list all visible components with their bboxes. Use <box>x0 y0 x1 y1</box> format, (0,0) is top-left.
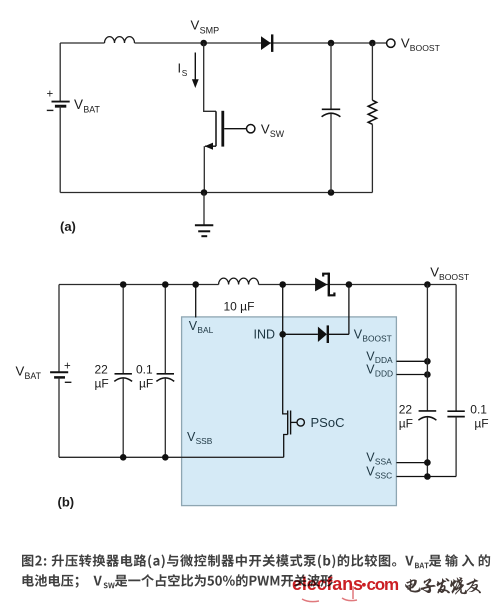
node D2 cathode junction <box>346 281 353 288</box>
label VSW <box>261 121 285 139</box>
pin line VDDA <box>396 360 427 362</box>
svg-text:V: V <box>16 364 25 379</box>
wire top rail (b) right segment <box>259 284 457 286</box>
transistor Q1 channel <box>215 111 217 146</box>
svg-text:V: V <box>191 18 200 33</box>
node VSSC junction <box>424 473 431 480</box>
wire bottom rail (a) <box>60 192 372 194</box>
wire battery bottom lead (a) <box>59 106 61 193</box>
capacitor C2 22uF (b) <box>114 285 132 458</box>
label VBOOST (b top) <box>430 265 470 283</box>
svg-text:PSoC: PSoC <box>311 415 345 430</box>
transistor Q2 gate bar <box>290 411 292 435</box>
transistor Q1 gate bar <box>221 111 224 147</box>
transistor Q2 gate lead <box>291 421 297 423</box>
svg-text:SMP: SMP <box>200 26 220 36</box>
transistor Q2 PSoC drain <box>283 334 288 414</box>
svg-text:0.1: 0.1 <box>470 402 487 416</box>
node VBAL junction <box>192 281 199 288</box>
svg-text:S: S <box>182 68 188 78</box>
svg-text:SSB: SSB <box>196 436 213 446</box>
wire bottom rail (b) <box>59 456 284 458</box>
transistor Q2 channel <box>287 411 289 435</box>
svg-text:µF: µF <box>95 376 109 390</box>
diode D3 (b inner) <box>318 325 349 343</box>
svg-text:V: V <box>401 35 410 50</box>
node C2 top <box>120 281 127 288</box>
node cap C1 top junction <box>328 40 335 47</box>
label 0.1uF (C5) <box>470 402 488 430</box>
watermark elecfans <box>292 574 399 594</box>
terminal circle PSoC gate <box>297 419 304 426</box>
wire IND to D3 <box>283 333 318 335</box>
node resistor R1 top junction <box>369 40 376 47</box>
node IND pin junction <box>279 331 286 338</box>
svg-text:SSA: SSA <box>375 456 392 466</box>
svg-text:BAT: BAT <box>83 104 100 114</box>
resistor R1 (a) <box>368 43 376 193</box>
svg-text:BOOST: BOOST <box>439 272 470 282</box>
wire VBOOST stub (a) <box>376 42 387 44</box>
transistor Q2 source wire <box>284 435 288 458</box>
label VBOOST pin (box) <box>354 328 392 344</box>
label VDDA pin <box>366 349 393 365</box>
svg-text:(b): (b) <box>58 495 75 510</box>
pin line VSSC <box>396 476 456 478</box>
svg-text:V: V <box>261 121 270 136</box>
svg-text:22: 22 <box>95 362 109 376</box>
node VSSA junction <box>424 459 431 466</box>
svg-text:SSC: SSC <box>375 470 392 480</box>
battery VBAT (a) <box>52 102 70 107</box>
wire battery bottom lead (b) <box>58 377 60 457</box>
transistor Q1 drain wire <box>204 43 216 111</box>
label VSSC pin <box>366 465 392 481</box>
node VDDA junction <box>424 358 431 365</box>
svg-text:com: com <box>367 575 399 594</box>
svg-text:22: 22 <box>399 402 413 416</box>
svg-text:BAT: BAT <box>25 371 42 381</box>
terminal circle VBOOST (a) <box>387 39 395 47</box>
label VBAL pin <box>189 319 214 335</box>
label 22uF (C4) <box>399 402 413 430</box>
node VBOOST top junction <box>424 281 431 288</box>
caption line 1 text <box>22 554 414 568</box>
label VSMP <box>191 18 220 36</box>
svg-text:+: + <box>64 361 71 373</box>
label VDDD pin <box>366 363 393 379</box>
transistor Q1 source wire with arrow <box>204 143 216 193</box>
svg-text:BOOST: BOOST <box>410 43 441 53</box>
wire top rail (a) right segment <box>135 42 373 44</box>
inductor L2 (b) <box>219 278 259 284</box>
diode D1 (a) <box>261 34 272 52</box>
caption line 2 text <box>23 574 102 588</box>
node VSMP junction <box>200 40 207 47</box>
battery VBAT (b) <box>50 372 68 377</box>
svg-text:µF: µF <box>399 416 413 430</box>
svg-text:V: V <box>430 265 439 280</box>
svg-text:µF: µF <box>139 376 153 390</box>
svg-text:SW: SW <box>270 129 285 139</box>
caption line 2 subscript SW <box>104 583 115 589</box>
pin line VSSA <box>396 462 427 464</box>
svg-text:(a): (a) <box>60 219 76 234</box>
svg-text:DDA: DDA <box>375 355 393 365</box>
node source-ground junction <box>201 189 208 196</box>
svg-text:V: V <box>74 97 83 112</box>
svg-text:DDD: DDD <box>375 368 393 378</box>
svg-text:IND: IND <box>254 328 276 342</box>
current arrow IS <box>178 53 199 89</box>
battery minus sign (a) <box>47 109 54 111</box>
transistor Q1 gate lead <box>224 128 246 130</box>
wire VBAL pin lead <box>195 285 197 318</box>
terminal circle VSW <box>247 125 255 133</box>
svg-text:µF: µF <box>474 416 488 430</box>
node cap C1 bottom junction <box>328 189 335 196</box>
svg-text:10 µF: 10 µF <box>224 300 255 314</box>
capacitor C1 (a) <box>322 43 341 193</box>
label VBAT (b) <box>16 364 42 382</box>
wire D3 cathode riser <box>348 285 350 335</box>
label VSSA pin <box>366 451 392 467</box>
battery minus sign (b) <box>65 381 72 383</box>
label VSSB pin <box>187 430 213 446</box>
inductor L1 (a) <box>105 37 135 43</box>
caption line 1 tail <box>429 554 490 567</box>
label 22uF (C2) <box>95 362 109 390</box>
svg-text:I: I <box>178 61 182 76</box>
svg-text:+: + <box>47 89 54 101</box>
schottky diode D2 (b) <box>315 273 334 297</box>
label VBOOST (a) <box>401 35 441 53</box>
node C3 bottom <box>162 454 169 461</box>
svg-text:0.1: 0.1 <box>136 362 153 376</box>
wire top rail (a) left segment <box>60 42 104 44</box>
label 0.1uF (C3) <box>136 362 153 390</box>
label VBAT (a) <box>74 97 100 115</box>
node VDDD junction <box>424 371 431 378</box>
wire top rail (b) left segment <box>59 284 219 286</box>
node C2 bottom <box>120 454 127 461</box>
caption line 1 subscript BAT <box>415 563 429 569</box>
wire battery top lead (a) <box>59 43 61 101</box>
node IND rail junction <box>279 281 286 288</box>
node C3 top <box>162 281 169 288</box>
PSoC box U1 <box>182 317 397 506</box>
wire battery top lead (b) <box>58 285 60 373</box>
ground symbol (a) <box>195 193 213 237</box>
watermark red scribbles <box>302 586 357 602</box>
caption line 2 tail <box>115 574 333 587</box>
capacitor C3 0.1uF (b) <box>156 285 174 458</box>
svg-text:BAL: BAL <box>197 325 213 335</box>
capacitor C5 0.1uF right <box>447 285 464 477</box>
capacitor C4 22uF right <box>418 285 436 477</box>
svg-text:BOOST: BOOST <box>362 334 391 344</box>
wire IND drop <box>282 285 284 335</box>
pin line VDDD <box>396 374 427 376</box>
watermark hanzi <box>405 577 481 594</box>
